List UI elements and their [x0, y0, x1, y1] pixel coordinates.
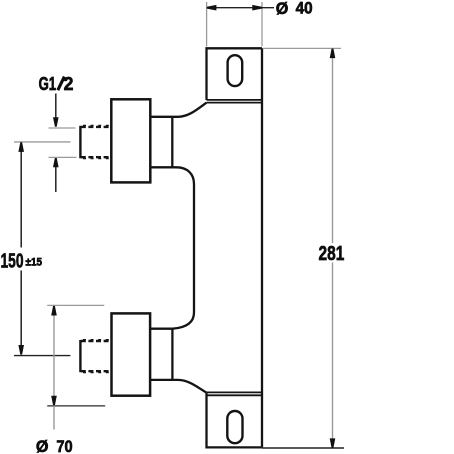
upper stub thread crest jaggies top [83, 124, 110, 126]
svg-text:40: 40 [296, 0, 313, 18]
top plate slot (oblong hole) [228, 55, 243, 86]
dim Ø70 down arrowhead [51, 396, 57, 406]
middle tube (arm bottom edge, tube left edge, lower neck top edge) [150, 167, 194, 328]
lower stub thread crest jaggies top [83, 339, 110, 341]
dim Ø40 right arrowhead [252, 5, 262, 11]
dim Ø40 dimension line [207, 7, 274, 9]
dim 150 dimension line [20, 144, 22, 351]
svg-text:Ø: Ø [36, 437, 49, 454]
dim Ø70 up arrowhead [51, 306, 57, 316]
upper threaded stub left edge [79, 126, 81, 159]
upper threaded stub top edge (thread dashes) [81, 126, 111, 128]
dim 281 bottom arrowhead [330, 438, 336, 448]
dim G1/2 up arrowhead [53, 158, 59, 168]
lower neck right edge [171, 329, 173, 380]
dim 281 bottom extension line [262, 447, 344, 449]
lower valve block [112, 313, 151, 395]
body column right edge [261, 48, 263, 447]
dim G1/2 down arrowhead [53, 117, 59, 127]
lower stub thread crest jaggies bottom [83, 372, 110, 374]
upper arm top edge with S-curve to top plate [150, 103, 206, 117]
top plate bottom double line [206, 100, 262, 103]
svg-text:70: 70 [56, 437, 72, 454]
svg-text:150: 150 [1, 251, 24, 273]
lower centerline [14, 355, 70, 357]
lower threaded stub left edge [79, 340, 81, 372]
dim Ø40 extension line right [261, 2, 263, 47]
upper neck right edge [171, 117, 173, 168]
dim Ø40 left arrowhead [207, 5, 217, 11]
bottom plate top double line [207, 392, 263, 395]
upper valve block [111, 99, 150, 182]
dim G1/2 leader line upper [55, 94, 57, 119]
svg-text:2: 2 [64, 74, 74, 94]
dim Ø70 dimension line [53, 307, 55, 430]
dim 281 top arrowhead [330, 49, 336, 59]
stub top edge extension line [49, 127, 76, 129]
svg-text:281: 281 [319, 242, 345, 265]
dim G1/2 leader line lower [55, 166, 57, 192]
dim 150 up arrowhead [18, 142, 24, 152]
bottom plate slot (oblong hole) [227, 411, 242, 443]
lower arm bottom edge with S-curve to bottom plate [150, 380, 206, 393]
dim Ø70 top extension line [47, 304, 104, 306]
bottom mounting plate [207, 393, 262, 447]
upper threaded stub bottom edge (thread dashes) [81, 156, 111, 158]
svg-text:±15: ±15 [26, 256, 43, 268]
dim Ø40 extension line left [206, 2, 208, 47]
dim 150 down arrowhead [18, 345, 24, 355]
lower threaded stub bottom edge (thread dashes) [81, 370, 111, 372]
dim 281 dimension line [332, 49, 334, 448]
upper stub thread crest jaggies bottom [83, 158, 110, 160]
top mounting plate [207, 48, 263, 100]
lower threaded stub top edge (thread dashes) [81, 340, 111, 342]
upper centerline [14, 141, 71, 143]
svg-text:G1: G1 [39, 74, 57, 94]
dim Ø70 bottom extension line [47, 405, 105, 407]
stub bottom edge extension line [49, 156, 77, 158]
dim 281 top extension line [263, 47, 341, 49]
svg-text:Ø: Ø [276, 0, 289, 18]
